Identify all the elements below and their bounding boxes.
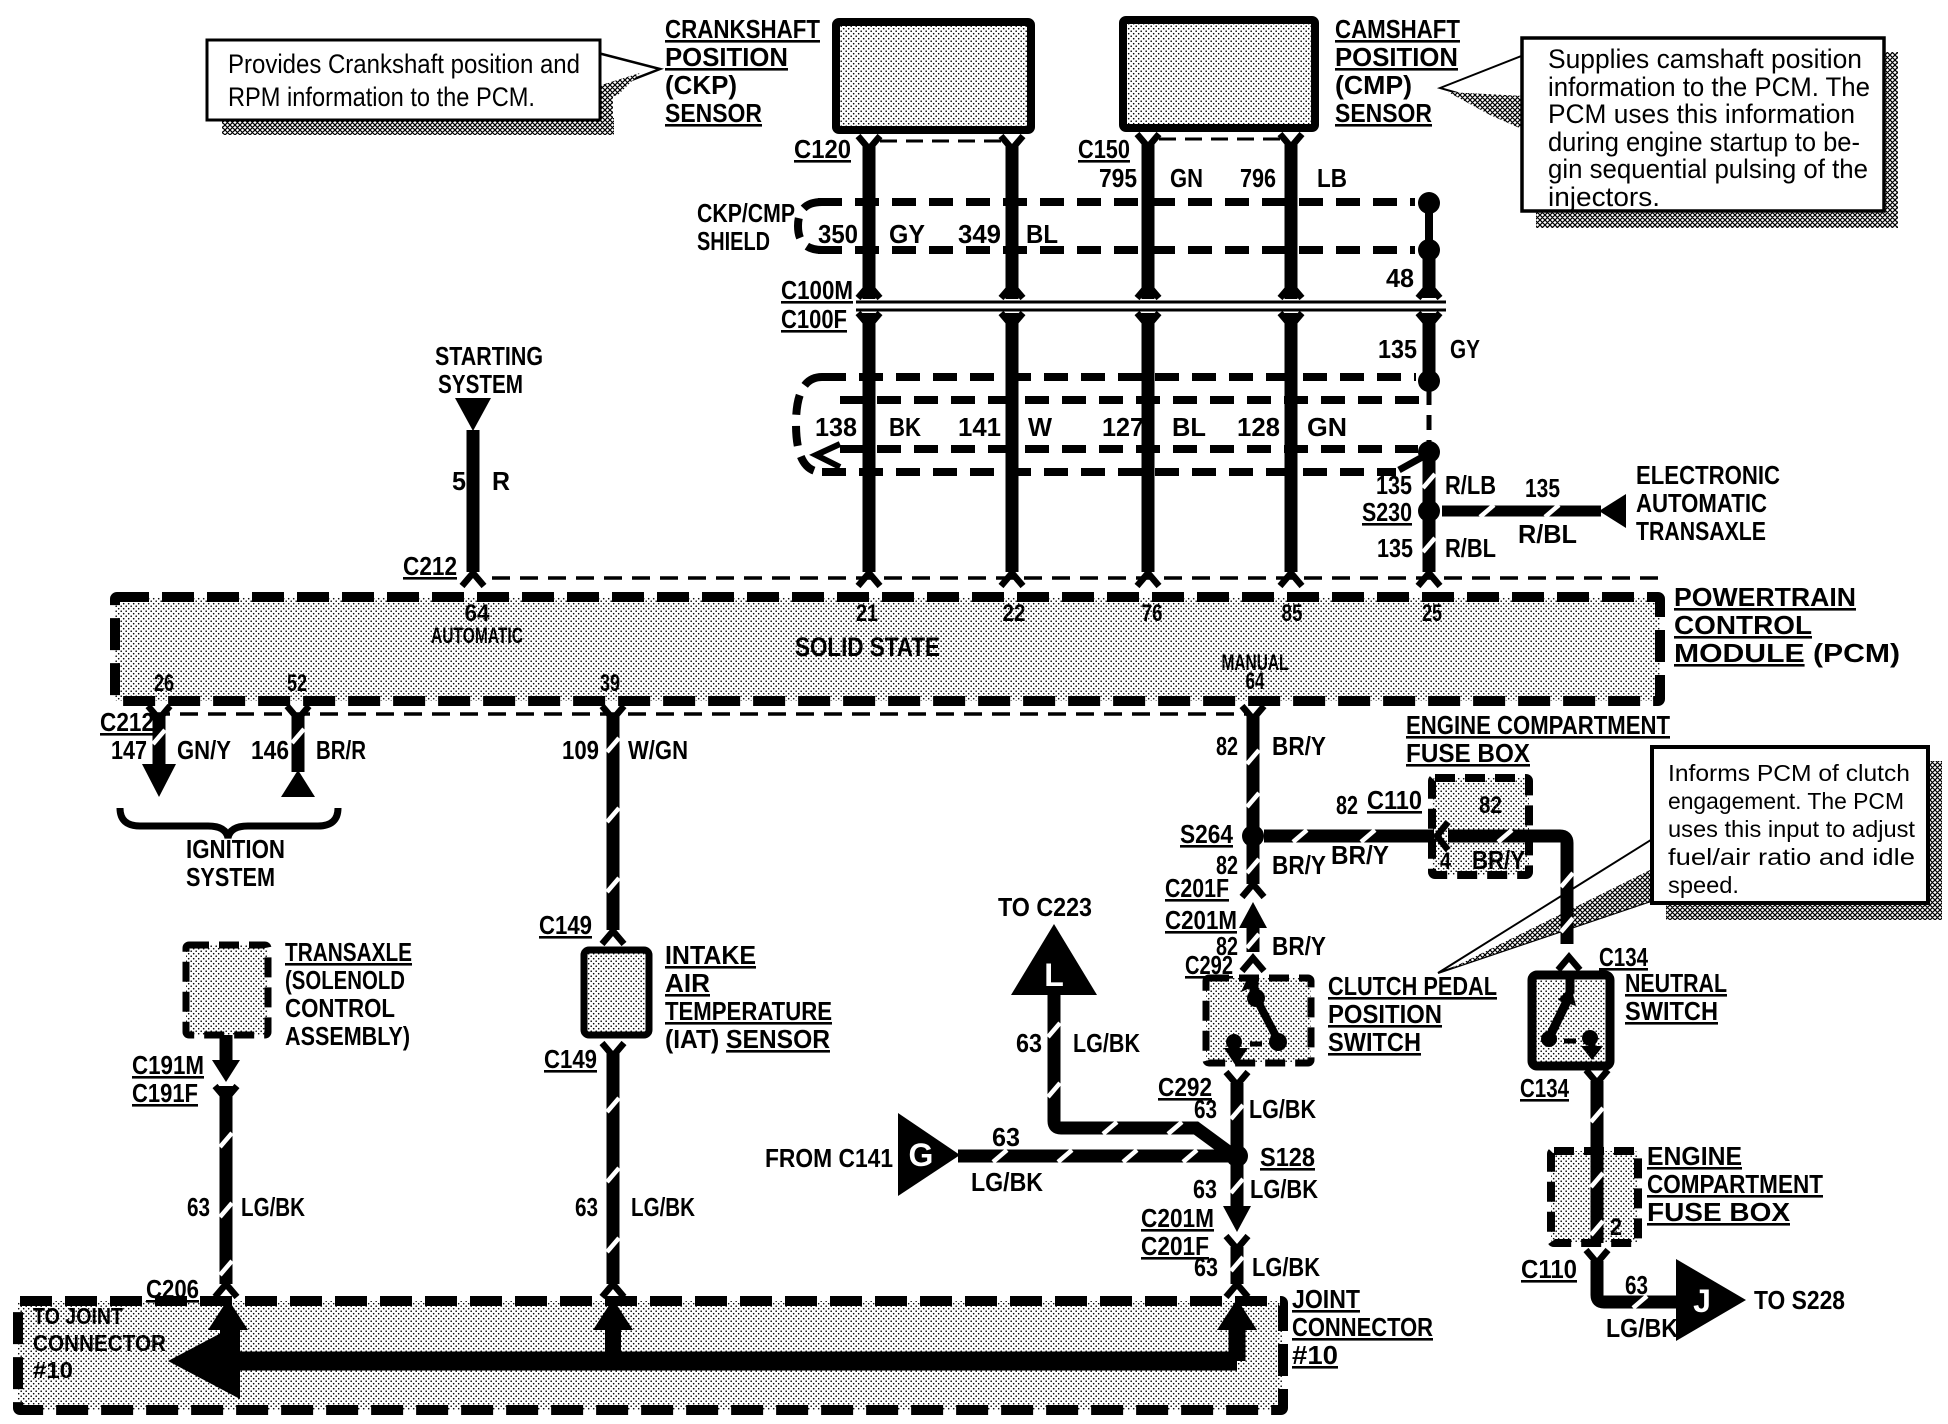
svg-text:CONNECTOR: CONNECTOR — [33, 1330, 166, 1356]
svg-text:349: 349 — [958, 219, 1001, 249]
svg-text:SENSOR: SENSOR — [665, 98, 762, 128]
svg-text:LG/BK: LG/BK — [1606, 1313, 1678, 1343]
svg-text:4: 4 — [1440, 848, 1452, 875]
svg-text:127: 127 — [1102, 412, 1144, 442]
svg-text:C100F: C100F — [781, 304, 847, 334]
svg-text:SYSTEM: SYSTEM — [186, 862, 275, 892]
svg-text:CRANKSHAFT: CRANKSHAFT — [665, 14, 820, 44]
svg-text:G: G — [909, 1137, 934, 1173]
svg-text:AUTOMATIC: AUTOMATIC — [431, 623, 523, 648]
svg-text:Informs PCM of clutch: Informs PCM of clutch — [1668, 760, 1910, 786]
svg-text:BK: BK — [889, 412, 921, 442]
svg-text:LG/BK: LG/BK — [1249, 1094, 1316, 1124]
svg-text:JOINT: JOINT — [1292, 1284, 1360, 1314]
svg-text:(IAT) SENSOR: (IAT) SENSOR — [665, 1024, 830, 1054]
svg-text:S230: S230 — [1362, 497, 1412, 527]
svg-text:C134: C134 — [1520, 1073, 1569, 1103]
svg-text:TO JOINT: TO JOINT — [33, 1303, 123, 1329]
svg-text:GN: GN — [1170, 163, 1203, 193]
svg-text:CONTROL: CONTROL — [1674, 610, 1812, 640]
svg-text:GN: GN — [1307, 412, 1347, 442]
svg-text:BR/Y: BR/Y — [1272, 731, 1326, 761]
svg-text:63: 63 — [575, 1192, 598, 1222]
svg-text:26: 26 — [154, 670, 174, 697]
svg-text:C149: C149 — [544, 1044, 597, 1074]
svg-text:#10: #10 — [33, 1357, 73, 1383]
svg-text:C120: C120 — [794, 134, 851, 164]
svg-text:R/BL: R/BL — [1445, 533, 1496, 563]
svg-text:ENGINE: ENGINE — [1647, 1141, 1742, 1171]
svg-text:64: 64 — [1246, 668, 1265, 695]
svg-text:#10: #10 — [1292, 1340, 1338, 1370]
svg-text:J: J — [1693, 1283, 1711, 1319]
svg-text:W/GN: W/GN — [628, 735, 688, 765]
svg-text:engagement. The PCM: engagement. The PCM — [1668, 788, 1904, 814]
svg-text:76: 76 — [1142, 600, 1163, 627]
svg-text:48: 48 — [1386, 263, 1414, 293]
svg-text:gin sequential pulsing of the: gin sequential pulsing of the — [1548, 154, 1868, 184]
svg-text:TEMPERATURE: TEMPERATURE — [665, 996, 832, 1026]
svg-text:AUTOMATIC: AUTOMATIC — [1636, 488, 1767, 518]
svg-text:CAMSHAFT: CAMSHAFT — [1335, 14, 1460, 44]
svg-text:63: 63 — [992, 1122, 1020, 1152]
svg-text:109: 109 — [562, 735, 599, 765]
svg-text:SYSTEM: SYSTEM — [438, 369, 523, 399]
svg-text:85: 85 — [1282, 600, 1303, 627]
svg-text:ELECTRONIC: ELECTRONIC — [1636, 460, 1780, 490]
svg-text:795: 795 — [1099, 163, 1137, 193]
svg-text:speed.: speed. — [1668, 872, 1739, 898]
svg-text:during engine startup to be-: during engine startup to be- — [1548, 127, 1860, 157]
svg-text:141: 141 — [958, 412, 1001, 442]
svg-text:82: 82 — [1336, 790, 1358, 820]
svg-text:TRANSAXLE: TRANSAXLE — [1636, 516, 1766, 546]
svg-text:25: 25 — [1422, 600, 1442, 627]
svg-text:SWITCH: SWITCH — [1625, 996, 1718, 1026]
svg-text:POSITION: POSITION — [1328, 999, 1442, 1029]
svg-text:350: 350 — [818, 219, 858, 249]
svg-text:C201M: C201M — [1141, 1203, 1214, 1233]
svg-text:LB: LB — [1317, 163, 1347, 193]
svg-text:C110: C110 — [1521, 1254, 1577, 1284]
svg-text:SOLID STATE: SOLID STATE — [795, 632, 940, 662]
svg-text:Supplies camshaft position: Supplies camshaft position — [1548, 44, 1862, 74]
svg-text:63: 63 — [1193, 1174, 1217, 1204]
svg-text:63: 63 — [1194, 1252, 1218, 1282]
svg-text:5: 5 — [452, 466, 466, 496]
svg-text:CONTROL: CONTROL — [285, 993, 395, 1023]
svg-text:POSITION: POSITION — [665, 42, 788, 72]
svg-text:AIR: AIR — [665, 968, 710, 998]
svg-text:RPM information to the PCM.: RPM information to the PCM. — [228, 82, 535, 112]
svg-text:C201F: C201F — [1165, 873, 1229, 903]
svg-text:63: 63 — [1016, 1028, 1042, 1058]
svg-text:GN/Y: GN/Y — [177, 735, 231, 765]
svg-text:R: R — [492, 466, 510, 496]
svg-text:GY: GY — [1450, 334, 1480, 364]
svg-text:Provides Crankshaft position a: Provides Crankshaft position and — [228, 49, 580, 79]
svg-text:information to the PCM. The: information to the PCM. The — [1548, 72, 1870, 102]
svg-text:ASSEMBLY): ASSEMBLY) — [285, 1021, 410, 1051]
svg-text:LG/BK: LG/BK — [1252, 1252, 1320, 1282]
svg-text:S128: S128 — [1260, 1142, 1315, 1172]
svg-text:BR/R: BR/R — [316, 735, 366, 765]
svg-text:82: 82 — [1216, 731, 1238, 761]
svg-text:39: 39 — [600, 670, 620, 697]
svg-text:R/LB: R/LB — [1445, 470, 1496, 500]
svg-text:POWERTRAIN: POWERTRAIN — [1674, 582, 1856, 612]
svg-text:NEUTRAL: NEUTRAL — [1625, 968, 1727, 998]
svg-text:LG/BK: LG/BK — [241, 1192, 305, 1222]
svg-text:C149: C149 — [539, 910, 592, 940]
svg-text:S264: S264 — [1180, 819, 1233, 849]
svg-text:BL: BL — [1026, 219, 1058, 249]
svg-text:128: 128 — [1237, 412, 1280, 442]
svg-text:135: 135 — [1376, 470, 1412, 500]
svg-text:SWITCH: SWITCH — [1328, 1027, 1421, 1057]
svg-text:GY: GY — [889, 219, 925, 249]
svg-text:796: 796 — [1240, 163, 1276, 193]
svg-text:POSITION: POSITION — [1335, 42, 1458, 72]
svg-text:C100M: C100M — [781, 275, 853, 305]
svg-text:TO C223: TO C223 — [998, 892, 1092, 922]
svg-text:21: 21 — [856, 600, 878, 627]
svg-text:BR/Y: BR/Y — [1272, 850, 1326, 880]
svg-text:63: 63 — [1194, 1094, 1217, 1124]
svg-text:138: 138 — [815, 412, 857, 442]
svg-text:LG/BK: LG/BK — [631, 1192, 695, 1222]
svg-text:C191M: C191M — [132, 1050, 204, 1080]
svg-text:LG/BK: LG/BK — [1250, 1174, 1318, 1204]
svg-text:R/BL: R/BL — [1518, 519, 1577, 549]
svg-text:C292: C292 — [1185, 950, 1233, 980]
svg-text:L: L — [1044, 957, 1064, 993]
svg-text:BR/Y: BR/Y — [1331, 840, 1389, 870]
svg-text:SHIELD: SHIELD — [697, 226, 770, 256]
svg-text:135: 135 — [1377, 533, 1413, 563]
svg-text:22: 22 — [1003, 600, 1026, 627]
svg-text:injectors.: injectors. — [1548, 182, 1660, 212]
svg-text:TO S228: TO S228 — [1754, 1285, 1845, 1315]
svg-text:INTAKE: INTAKE — [665, 940, 756, 970]
svg-text:SENSOR: SENSOR — [1335, 98, 1432, 128]
svg-text:(CKP): (CKP) — [665, 70, 737, 100]
svg-text:82: 82 — [1479, 792, 1502, 819]
svg-text:CLUTCH PEDAL: CLUTCH PEDAL — [1328, 971, 1497, 1001]
svg-text:63: 63 — [187, 1192, 210, 1222]
svg-text:ENGINE COMPARTMENT: ENGINE COMPARTMENT — [1406, 710, 1670, 740]
svg-text:63: 63 — [1625, 1270, 1648, 1300]
svg-text:(SOLENOLD: (SOLENOLD — [285, 965, 405, 995]
svg-text:52: 52 — [287, 670, 307, 697]
svg-text:C206: C206 — [146, 1274, 199, 1304]
svg-text:C150: C150 — [1078, 134, 1130, 164]
svg-text:FROM C141: FROM C141 — [765, 1143, 893, 1173]
svg-text:FUSE BOX: FUSE BOX — [1647, 1197, 1791, 1227]
svg-text:146: 146 — [251, 735, 289, 765]
svg-text:BR/Y: BR/Y — [1272, 931, 1326, 961]
svg-text:COMPARTMENT: COMPARTMENT — [1647, 1169, 1823, 1199]
svg-text:LG/BK: LG/BK — [1073, 1028, 1140, 1058]
svg-text:fuel/air ratio and idle: fuel/air ratio and idle — [1668, 844, 1915, 870]
svg-text:PCM uses this information: PCM uses this information — [1548, 99, 1855, 129]
svg-text:STARTING: STARTING — [435, 341, 543, 371]
svg-text:147: 147 — [111, 735, 147, 765]
svg-text:LG/BK: LG/BK — [971, 1167, 1043, 1197]
svg-text:135: 135 — [1378, 334, 1417, 364]
svg-text:IGNITION: IGNITION — [186, 834, 285, 864]
svg-text:BR/Y: BR/Y — [1472, 845, 1525, 875]
svg-text:(CMP): (CMP) — [1335, 70, 1412, 100]
svg-text:MODULE (PCM): MODULE (PCM) — [1674, 638, 1900, 668]
svg-text:FUSE BOX: FUSE BOX — [1406, 738, 1531, 768]
svg-text:TRANSAXLE: TRANSAXLE — [285, 937, 412, 967]
svg-text:BL: BL — [1172, 412, 1206, 442]
svg-text:2: 2 — [1610, 1214, 1622, 1241]
svg-text:uses this input to adjust: uses this input to adjust — [1668, 816, 1916, 842]
svg-text:CONNECTOR: CONNECTOR — [1292, 1312, 1433, 1342]
svg-text:C191F: C191F — [132, 1078, 198, 1108]
svg-text:135: 135 — [1525, 473, 1560, 503]
svg-text:C110: C110 — [1367, 785, 1422, 815]
svg-text:W: W — [1028, 412, 1052, 442]
svg-text:C212: C212 — [100, 707, 154, 737]
svg-text:C212: C212 — [403, 551, 457, 581]
svg-text:CKP/CMP: CKP/CMP — [697, 198, 795, 228]
